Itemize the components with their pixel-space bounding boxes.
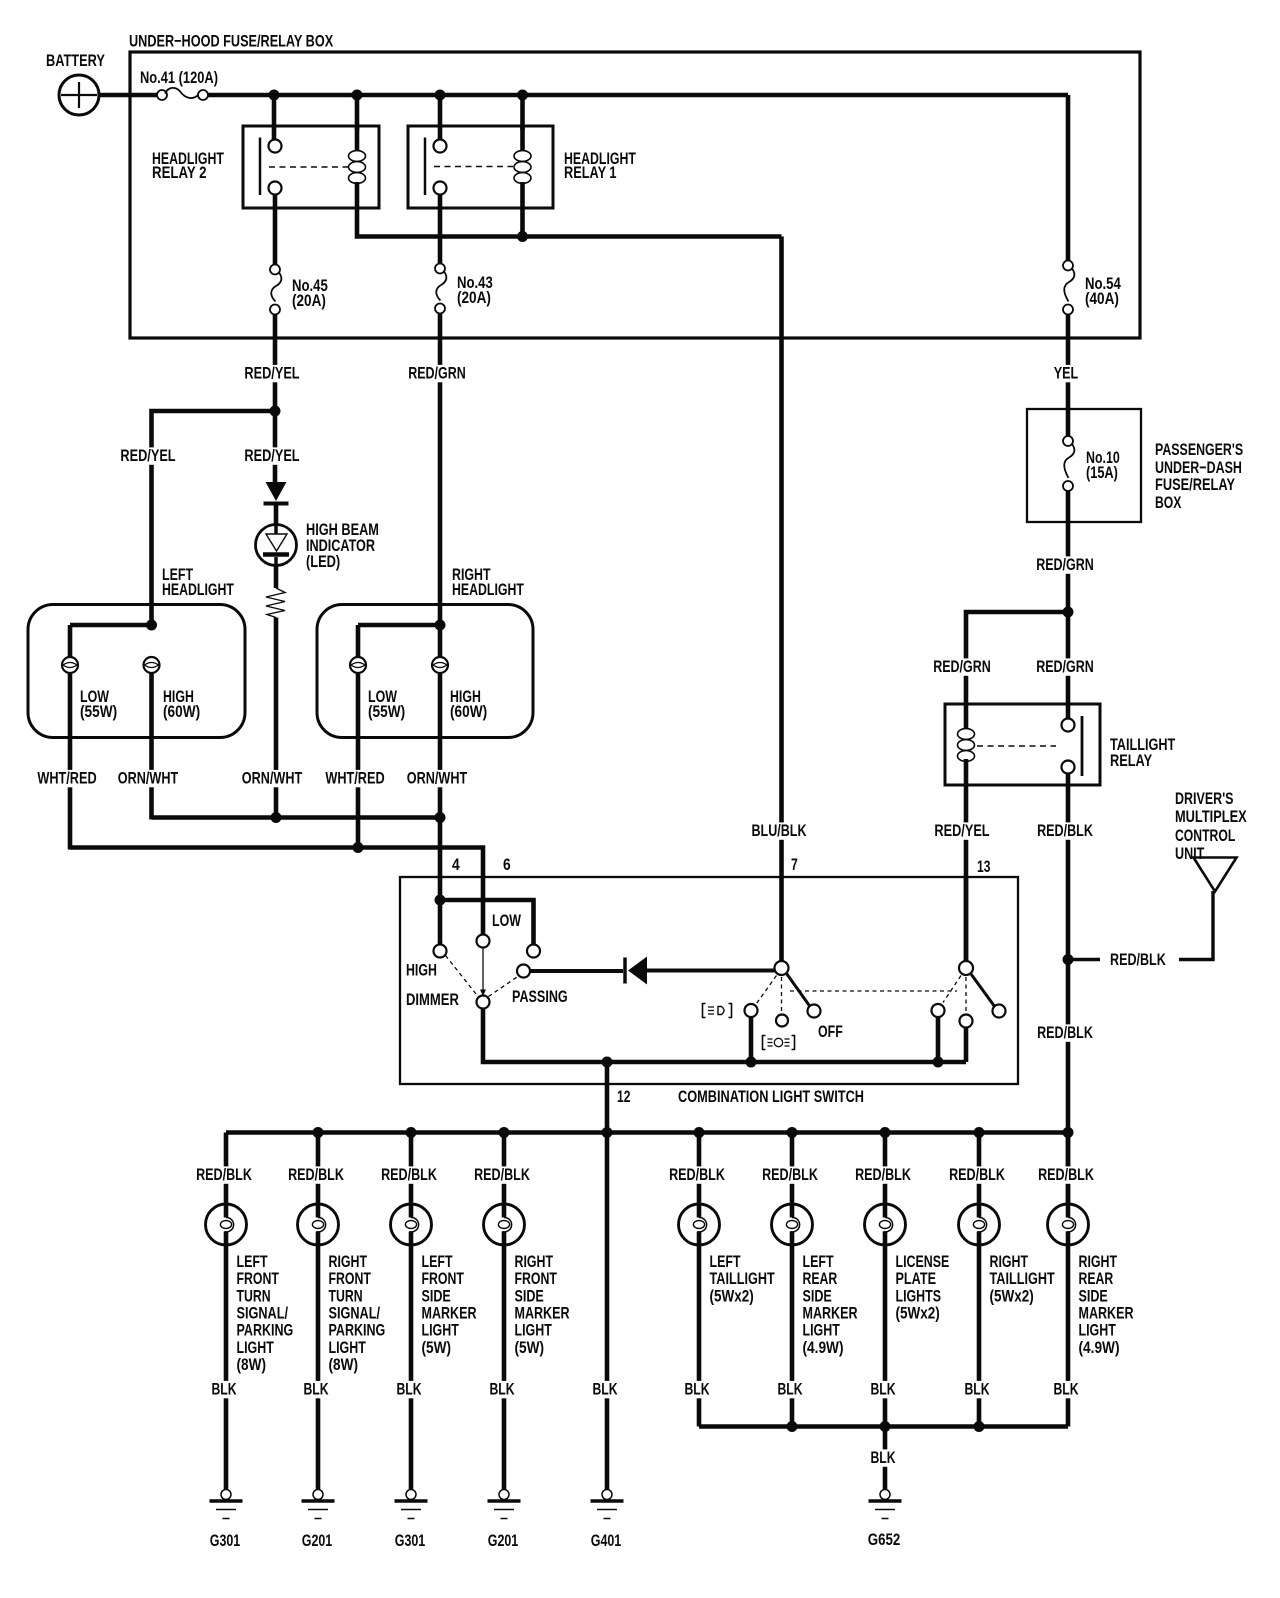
switch blade pin7 to OFF [787, 974, 811, 1007]
svg-text:BLK: BLK [489, 1380, 515, 1399]
coil of relay 1 [520, 126, 525, 152]
svg-text:CONTROL: CONTROL [1175, 826, 1235, 845]
contact PASSING [517, 965, 530, 978]
node junction RED/GRN split y=612 [1063, 607, 1074, 618]
svg-text:PLATE: PLATE [896, 1269, 937, 1288]
svg-text:RELAY: RELAY [1110, 751, 1153, 770]
ground G652 [883, 1488, 888, 1491]
wire BLU/BLK from coil bus down to switch pin 7 [779, 237, 784, 962]
wire resistor down to high-beam bus [274, 618, 279, 818]
wire taillight contact b down [964, 1028, 969, 1063]
bulb left front side marker light [391, 1204, 432, 1245]
label RED/BLK right front turn signal/parking light [286, 1166, 346, 1183]
label HEADLIGHT RELAY 1 [564, 149, 636, 182]
svg-text:RED/BLK: RED/BLK [381, 1165, 437, 1184]
wire RED/BLK taillight relay contact down [1066, 774, 1071, 1205]
svg-text:LEFT: LEFT [237, 1252, 269, 1271]
wire main bus right column down to fuse No.54 [1066, 95, 1071, 261]
wire relay2 contact top [272, 95, 277, 140]
wire BLK left front turn signal/parking light [224, 1245, 229, 1488]
svg-text:FRONT: FRONT [237, 1269, 280, 1288]
bulb right front side marker light [484, 1204, 525, 1245]
bulb left front turn signal/parking light [206, 1204, 247, 1245]
node ground bus x=885 [880, 1421, 891, 1432]
label HEADLIGHT RELAY 2 [152, 149, 224, 182]
label LOW (55W) right [368, 687, 405, 721]
node left headlight feed junction [146, 620, 157, 631]
wire low-beam bus y=847 to switch pin 6 [70, 848, 483, 935]
svg-text:RED/GRN: RED/GRN [1036, 657, 1094, 676]
label RED/GRN coil branch [931, 658, 993, 675]
svg-text:ORN/WHT: ORN/WHT [242, 769, 303, 788]
label RED/GRN main [1034, 556, 1096, 573]
diode D2 in switch [625, 957, 647, 985]
wire BLK right taillight [977, 1245, 982, 1427]
svg-text:RED/BLK: RED/BLK [196, 1165, 252, 1184]
label RED/YEL left branch [118, 447, 177, 464]
svg-text:RIGHT: RIGHT [329, 1252, 368, 1271]
svg-text:LEFT: LEFT [710, 1252, 742, 1271]
resistor R1 [266, 588, 285, 618]
svg-text:TAILLIGHT: TAILLIGHT [990, 1269, 1056, 1288]
svg-text:RED/BLK: RED/BLK [949, 1165, 1005, 1184]
node lamp bus x=318 [313, 1127, 324, 1138]
svg-text:BOX: BOX [1155, 493, 1182, 512]
node lamp bus x=1068 [1063, 1127, 1074, 1138]
contact taillight position b [960, 1015, 973, 1028]
svg-text:G301: G301 [395, 1531, 426, 1550]
svg-text:(55W): (55W) [80, 702, 117, 721]
wire BLK right front turn signal/parking light [316, 1245, 321, 1488]
taillight relay U3 [945, 704, 1100, 785]
right headlight housing [317, 605, 533, 738]
svg-text:LOW: LOW [492, 911, 522, 930]
wire relay2 contact bottom to fuse No.45 [273, 195, 278, 266]
label BLK right front turn signal/parking light [302, 1381, 331, 1398]
label BLK right taillight [963, 1381, 992, 1398]
svg-text:YEL: YEL [1054, 364, 1079, 383]
wire branch node A to left headlight feed [152, 411, 278, 627]
battery B1 [46, 51, 105, 115]
svg-text:DRIVER'S: DRIVER'S [1175, 789, 1234, 808]
svg-text:RED/BLK: RED/BLK [762, 1165, 818, 1184]
wire relay1 contact bottom to fuse No.43 [438, 195, 443, 265]
contact right off position [993, 1005, 1006, 1018]
svg-text:COMBINATION LIGHT SWITCH: COMBINATION LIGHT SWITCH [678, 1087, 864, 1106]
wire left high beam ORN/WHT down [149, 673, 154, 820]
fuse No.10 (15A) [1063, 436, 1120, 491]
wire BLK left taillight [697, 1245, 702, 1427]
svg-text:RED/BLK: RED/BLK [669, 1165, 725, 1184]
fuse No.54 (40A) [1063, 261, 1121, 315]
svg-text:HIGH: HIGH [406, 961, 437, 980]
svg-text:(40A): (40A) [1085, 289, 1119, 308]
node ground bus x=979 [974, 1421, 985, 1432]
node pin4 internal junction [435, 895, 446, 906]
dashed pin7 to parking contact [757, 976, 777, 1004]
label ORN/WHT left [116, 770, 180, 787]
label PASSENGER'S UNDER-DASH FUSE/RELAY BOX [1155, 440, 1243, 512]
bulb license plate lights [865, 1204, 906, 1245]
node junction indicator on high bus [271, 812, 282, 823]
svg-text:RED/BLK: RED/BLK [1110, 950, 1166, 969]
wire RED/BLK drop left front turn signal/parking light [224, 1133, 229, 1205]
label license plate lights [896, 1252, 950, 1322]
label BLK left front side marker light [395, 1381, 424, 1398]
contact pin 13 common [959, 961, 973, 975]
svg-text:LIGHT: LIGHT [1079, 1321, 1117, 1340]
svg-text:BLK: BLK [1053, 1380, 1079, 1399]
wire lamp feed bus y=1132 [226, 1130, 1068, 1135]
svg-text:ORN/WHT: ORN/WHT [118, 769, 179, 788]
svg-text:BATTERY: BATTERY [46, 51, 105, 70]
svg-text:(5W): (5W) [422, 1338, 452, 1357]
wire left low bulb top [68, 625, 73, 658]
label RED/BLK license plate lights [853, 1166, 913, 1183]
dimmer wiper thin link [482, 948, 484, 991]
label RED/GRN contact branch [1034, 658, 1096, 675]
svg-text:(55W): (55W) [368, 702, 405, 721]
wire right headlight internal bus [358, 623, 440, 628]
coil of relay 2 [355, 126, 360, 152]
wire relay coil common bus y=236 [357, 208, 782, 237]
switch blade pin13 [971, 974, 995, 1007]
svg-text:SIDE: SIDE [1079, 1286, 1108, 1305]
ground G301 left front side marker light [409, 1488, 414, 1491]
label LOW (55W) left [80, 687, 117, 721]
label RED/BLK left rear side marker light [760, 1166, 820, 1183]
svg-text:RELAY 2: RELAY 2 [152, 163, 207, 182]
svg-text:OFF: OFF [818, 1022, 843, 1041]
wire RED/BLK drop right front side marker light [502, 1133, 507, 1205]
label WHT/RED left [35, 770, 98, 787]
svg-text:LEFT: LEFT [803, 1252, 835, 1271]
wire parking contact down to internal bus [749, 1017, 754, 1062]
label BLK right front side marker light [488, 1381, 517, 1398]
svg-text:MARKER: MARKER [515, 1303, 570, 1322]
svg-text:G201: G201 [302, 1531, 333, 1550]
wire LED to resistor [274, 565, 279, 588]
contact OFF position [808, 1005, 821, 1018]
svg-text:HEADLIGHT: HEADLIGHT [452, 580, 524, 599]
high beam indicator LED1 [256, 525, 297, 566]
node lamp bus x=979 [974, 1127, 985, 1138]
diode D1 (series with indicator) [264, 482, 289, 504]
node junction main bus x=274 [269, 90, 280, 101]
svg-text:RED/YEL: RED/YEL [934, 821, 989, 840]
svg-text:FUSE/RELAY: FUSE/RELAY [1155, 475, 1235, 494]
svg-text:G401: G401 [591, 1531, 622, 1550]
svg-text:BLK: BLK [964, 1380, 990, 1399]
contact headlight position [776, 1015, 788, 1027]
wire left headlight internal bus [70, 623, 152, 628]
svg-text:(15A): (15A) [1086, 463, 1118, 482]
node lamp bus x=411 [406, 1127, 417, 1138]
wire RED/BLK drop license plate lights [883, 1133, 888, 1205]
wire BLK right rear side marker light [1066, 1245, 1071, 1427]
svg-text:PARKING: PARKING [237, 1321, 294, 1340]
svg-text:SIGNAL/: SIGNAL/ [237, 1303, 289, 1322]
wire BLK left front side marker light [409, 1245, 414, 1488]
svg-text:(5Wx2): (5Wx2) [990, 1286, 1034, 1305]
wire relay1 contact top [438, 95, 443, 140]
label RED/YEL indicator branch [242, 447, 301, 464]
svg-text:LIGHT: LIGHT [515, 1321, 553, 1340]
node A junction x=275 y=411 [270, 406, 281, 417]
label right taillight [990, 1252, 1056, 1305]
svg-text:(20A): (20A) [292, 291, 326, 310]
svg-text:FRONT: FRONT [515, 1269, 558, 1288]
wire battery to fuse No.41 [99, 93, 157, 98]
label right front turn signal/parking light [329, 1252, 386, 1374]
svg-text:RED/YEL: RED/YEL [244, 446, 299, 465]
label WHT/RED right [323, 770, 386, 787]
bulb right low beam (55W) [350, 657, 366, 673]
wire left low beam WHT/RED down [68, 673, 73, 850]
svg-text:12: 12 [617, 1087, 630, 1106]
label TAILLIGHT RELAY [1110, 735, 1176, 770]
node lamp bus x=699 [694, 1127, 705, 1138]
wire RED/BLK drop right taillight [977, 1133, 982, 1205]
node junction main bus x=357 [352, 90, 363, 101]
label RED/BLK right front side marker light [472, 1166, 532, 1183]
relay coil feed wire relay1 top [520, 95, 525, 130]
label RIGHT HEADLIGHT [452, 565, 524, 599]
svg-text:UNDER−HOOD FUSE/RELAY BOX: UNDER−HOOD FUSE/RELAY BOX [129, 32, 334, 51]
svg-text:SIGNAL/: SIGNAL/ [329, 1303, 381, 1322]
svg-text:BLK: BLK [870, 1448, 896, 1467]
svg-text:G652: G652 [868, 1530, 901, 1549]
svg-text:6: 6 [503, 855, 511, 874]
label BLK license plate lights [869, 1381, 898, 1398]
label RED/BLK upper [1035, 822, 1095, 839]
svg-text:RED/GRN: RED/GRN [933, 657, 991, 676]
label RED/BLK left taillight [667, 1166, 727, 1183]
fuse No.43 (20A) [435, 264, 493, 314]
wire main power bus y=95 [208, 93, 1068, 98]
label BLK left front turn signal/parking light [210, 1381, 239, 1398]
svg-text:BLU/BLK: BLU/BLK [752, 821, 808, 840]
label RED/YEL pin13 [932, 822, 991, 839]
wire right low bulb top [356, 625, 361, 658]
wire branch to taillight relay coil [966, 612, 1068, 704]
svg-text:(4.9W): (4.9W) [803, 1338, 844, 1357]
label left front turn signal/parking light [237, 1252, 294, 1374]
dashed mechanical link to right switch [790, 990, 957, 992]
svg-text:BLK: BLK [870, 1380, 896, 1399]
ground G301 left front turn signal/parking light [224, 1488, 229, 1491]
contact passing-high [527, 945, 540, 958]
fuse No.41 (120A) [140, 68, 218, 100]
svg-text:4: 4 [452, 855, 460, 874]
label RED/BLK right taillight [947, 1166, 1007, 1183]
svg-text:7: 7 [791, 855, 798, 874]
coil of taillight relay [964, 704, 969, 730]
passenger under-dash fuse/relay box [1027, 409, 1141, 522]
svg-text:LICENSE: LICENSE [896, 1252, 950, 1271]
bulb left low beam (55W) [62, 657, 78, 673]
wire BLK ground bus to G652 [883, 1427, 888, 1489]
wire RED/BLK drop left front side marker light [409, 1133, 414, 1205]
wire pin 12 down to ground G401 [605, 1062, 610, 1488]
svg-text:RIGHT: RIGHT [1079, 1252, 1118, 1271]
label left front side marker light [422, 1252, 477, 1357]
wire right high beam ORN/WHT down [438, 673, 443, 818]
svg-text:ORN/WHT: ORN/WHT [407, 769, 468, 788]
label BLK pin12 [591, 1381, 620, 1398]
svg-text:(5W): (5W) [515, 1338, 545, 1357]
contact LOW [477, 935, 490, 948]
wire diode to pin 7 contact [647, 969, 775, 973]
wire pin13 into box [964, 877, 969, 961]
svg-text:BLK: BLK [303, 1380, 329, 1399]
node lamp bus x=607 [602, 1127, 613, 1138]
label HIGH (60W) right [450, 687, 487, 721]
dashed pin7 to headlight contact [781, 977, 783, 1012]
svg-text:TURN: TURN [329, 1286, 363, 1305]
node junction right high on high bus [435, 812, 446, 823]
icon headlights position [763, 1036, 795, 1050]
relay coil feed wire relay2 top [355, 95, 360, 130]
label RED/BLK left front turn signal/parking light [194, 1166, 254, 1183]
svg-text:LEFT: LEFT [422, 1252, 454, 1271]
svg-text:RED/BLK: RED/BLK [1037, 1023, 1093, 1042]
label RED/YEL upper [242, 365, 301, 382]
bulb left rear side marker light [772, 1204, 813, 1245]
svg-text:(4.9W): (4.9W) [1079, 1338, 1120, 1357]
svg-text:(20A): (20A) [457, 288, 491, 307]
svg-text:RED/GRN: RED/GRN [408, 364, 466, 383]
bulb right rear side marker light [1048, 1204, 1089, 1245]
svg-text:BLK: BLK [777, 1380, 803, 1399]
svg-text:FRONT: FRONT [422, 1269, 465, 1288]
wire RED/GRN under-dash fuse down [1066, 491, 1071, 719]
svg-text:RED/BLK: RED/BLK [1037, 821, 1093, 840]
wire relay1 coil to bus [520, 208, 525, 237]
contact parking lights position [745, 1004, 758, 1017]
label BLU/BLK [750, 822, 809, 839]
svg-text:SIDE: SIDE [803, 1286, 832, 1305]
wire switch internal bus to pin 12 [483, 1009, 966, 1063]
wire RED/BLK drop left rear side marker light [790, 1133, 795, 1205]
wire YEL fuse54 to under-dash box [1066, 315, 1071, 437]
wire BLK right front side marker light [502, 1245, 507, 1488]
svg-text:WHT/RED: WHT/RED [325, 769, 384, 788]
svg-text:RIGHT: RIGHT [990, 1252, 1029, 1271]
wire RED/BLK drop right front turn signal/parking light [316, 1133, 321, 1205]
label RED/BLK right rear side marker light [1036, 1166, 1096, 1183]
left headlight housing [28, 605, 245, 738]
wire passing contact to diode [530, 969, 623, 973]
svg-text:RIGHT: RIGHT [515, 1252, 554, 1271]
wire multiplex lead [1179, 891, 1213, 960]
node junction multiplex tap [1063, 954, 1074, 965]
svg-text:HEADLIGHT: HEADLIGHT [162, 580, 234, 599]
under-hood fuse/relay box [129, 32, 1140, 339]
svg-text:TURN: TURN [237, 1286, 271, 1305]
driver's multiplex control unit (antenna symbol) [1194, 858, 1237, 892]
dashed dimmer to HIGH [446, 956, 479, 997]
wire RED/YEL taillight relay coil to switch pin 13 [964, 785, 969, 961]
label left taillight [710, 1252, 776, 1305]
dashed pin13 to taillight contact b [965, 977, 967, 1014]
contact DIMMER common [477, 996, 490, 1009]
contact HIGH [434, 945, 447, 958]
wire RED/GRN fuse43 down to right headlight feed [438, 314, 443, 658]
node junction coil bus x=522 [517, 231, 528, 242]
svg-text:RED/BLK: RED/BLK [1038, 1165, 1094, 1184]
label left rear side marker light [803, 1252, 858, 1357]
svg-text:RED/BLK: RED/BLK [474, 1165, 530, 1184]
svg-text:WHT/RED: WHT/RED [37, 769, 96, 788]
wire RED/YEL fuse45 down to node A [273, 315, 278, 486]
fuse No.45 (20A) [270, 265, 328, 315]
wire taillight contact a down [936, 1017, 941, 1062]
label HIGH BEAM INDICATOR (LED) [306, 520, 379, 571]
contact pin 7 common [775, 961, 789, 975]
node right headlight feed junction [435, 620, 446, 631]
node internal bus pin12 [602, 1057, 613, 1068]
svg-text:BLK: BLK [592, 1380, 618, 1399]
label DRIVER'S MULTIPLEX CONTROL UNIT [1175, 789, 1247, 863]
svg-text:PASSING: PASSING [512, 987, 568, 1006]
wire RED/BLK drop right rear side marker light [1066, 1133, 1071, 1205]
bulb right front turn signal/parking light [298, 1204, 339, 1245]
svg-text:MARKER: MARKER [1079, 1303, 1134, 1322]
node junction right low on low bus [353, 842, 364, 853]
label ORN/WHT right [405, 770, 469, 787]
wire high-beam bus y=817 to switch pin 4 [152, 818, 441, 945]
wire pin4 branch to passing contact [440, 900, 534, 945]
headlight relay 1 U1 [408, 126, 553, 208]
label RED/BLK lower [1035, 1024, 1095, 1041]
bulb right taillight [959, 1204, 1000, 1245]
svg-text:DIMMER: DIMMER [406, 990, 459, 1009]
svg-text:BLK: BLK [396, 1380, 422, 1399]
node junction main bus x=523 [517, 90, 528, 101]
svg-text:RED/BLK: RED/BLK [855, 1165, 911, 1184]
wire BLK license plate lights [883, 1245, 888, 1427]
label LEFT HEADLIGHT [162, 565, 234, 599]
bulb right high beam (60W) [432, 657, 448, 673]
svg-text:RED/YEL: RED/YEL [120, 446, 175, 465]
svg-text:PASSENGER'S: PASSENGER'S [1155, 440, 1243, 459]
svg-text:(5Wx2): (5Wx2) [896, 1303, 940, 1322]
icon parking lights position [703, 1004, 732, 1018]
label RED/BLK left front side marker light [379, 1166, 439, 1183]
svg-text:(5Wx2): (5Wx2) [710, 1286, 754, 1305]
wire right low beam WHT/RED down [356, 673, 361, 848]
label BLK left rear side marker light [776, 1381, 805, 1398]
svg-text:MULTIPLEX: MULTIPLEX [1175, 807, 1247, 826]
svg-text:BLK: BLK [211, 1380, 237, 1399]
node ground bus x=792 [787, 1421, 798, 1432]
svg-text:LIGHT: LIGHT [237, 1338, 275, 1357]
bulb left high beam (60W) [144, 657, 160, 673]
svg-text:LIGHT: LIGHT [422, 1321, 460, 1340]
svg-text:(60W): (60W) [163, 702, 200, 721]
wire rear lamp ground bus [699, 1424, 1068, 1429]
label right front side marker light [515, 1252, 570, 1357]
svg-text:G301: G301 [210, 1531, 241, 1550]
ground G201 right front side marker light [502, 1488, 507, 1491]
wire RED/BLK drop left taillight [697, 1133, 702, 1205]
svg-text:(8W): (8W) [237, 1355, 267, 1374]
label YEL [1052, 365, 1081, 382]
label right rear side marker light [1079, 1252, 1134, 1357]
contact taillight position a [932, 1004, 945, 1017]
ground G401 (pin 12) [605, 1488, 610, 1491]
